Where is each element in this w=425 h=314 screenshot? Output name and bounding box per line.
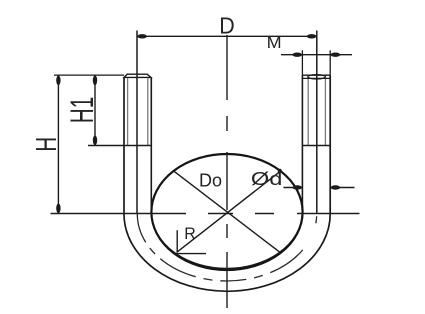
bend centerline arc (dash-dot) (137, 214, 316, 281)
svg-text:H: H (31, 137, 63, 152)
svg-text:R: R (184, 225, 196, 243)
svg-text:M: M (267, 34, 282, 52)
dimension M arrow left (292, 53, 302, 57)
svg-text:H1: H1 (64, 97, 100, 124)
svg-text:Do: Do (199, 170, 222, 190)
node: diagonal endpoint dot (278, 169, 282, 173)
pipe section ellipse (151, 154, 302, 270)
R horizontal tick (175, 253, 206, 255)
dimension Od line left (284, 187, 303, 189)
left leg thread minor lines (127, 78, 129, 145)
H arrow top (56, 76, 60, 86)
M extension line right (329, 50, 331, 75)
dimension D arrow left (137, 34, 147, 38)
H arrow bottom (56, 204, 60, 214)
H1 arrow top (93, 76, 97, 86)
svg-text:Ød: Ød (251, 169, 283, 189)
dimension M arrow right (331, 53, 341, 57)
right leg thread minor lines (307, 79, 309, 145)
Od arrow right (331, 185, 341, 189)
svg-text:D: D (219, 13, 235, 39)
right leg centerline (316, 31, 318, 215)
right leg top with chamfer lens (302, 74, 330, 76)
U-bolt inner outline (151, 75, 302, 268)
R vertical tick (176, 230, 178, 252)
dimension M line (281, 54, 352, 56)
dimension D line (137, 35, 317, 37)
H top extension line (54, 74, 124, 76)
left leg top chamfer (124, 74, 151, 77)
right leg thread end line (302, 145, 330, 147)
left leg thread end line (88, 145, 151, 147)
Od arrow left (292, 185, 302, 189)
M extension line left (301, 50, 303, 75)
vertical centerline (226, 35, 228, 308)
U-bolt outer outline (124, 75, 330, 291)
horizontal centerline (51, 213, 360, 215)
dimension Od line right (330, 187, 354, 189)
H1 arrow bottom (93, 136, 97, 146)
pipe diagonal diameter NW-SE (174, 171, 281, 253)
left leg centerline (136, 31, 138, 215)
dimension H1 line (94, 75, 96, 145)
pipe diagonal diameter NE-SW (R radius line) (177, 171, 281, 252)
dimension H line (57, 75, 59, 213)
dimension D arrow right (307, 34, 317, 38)
